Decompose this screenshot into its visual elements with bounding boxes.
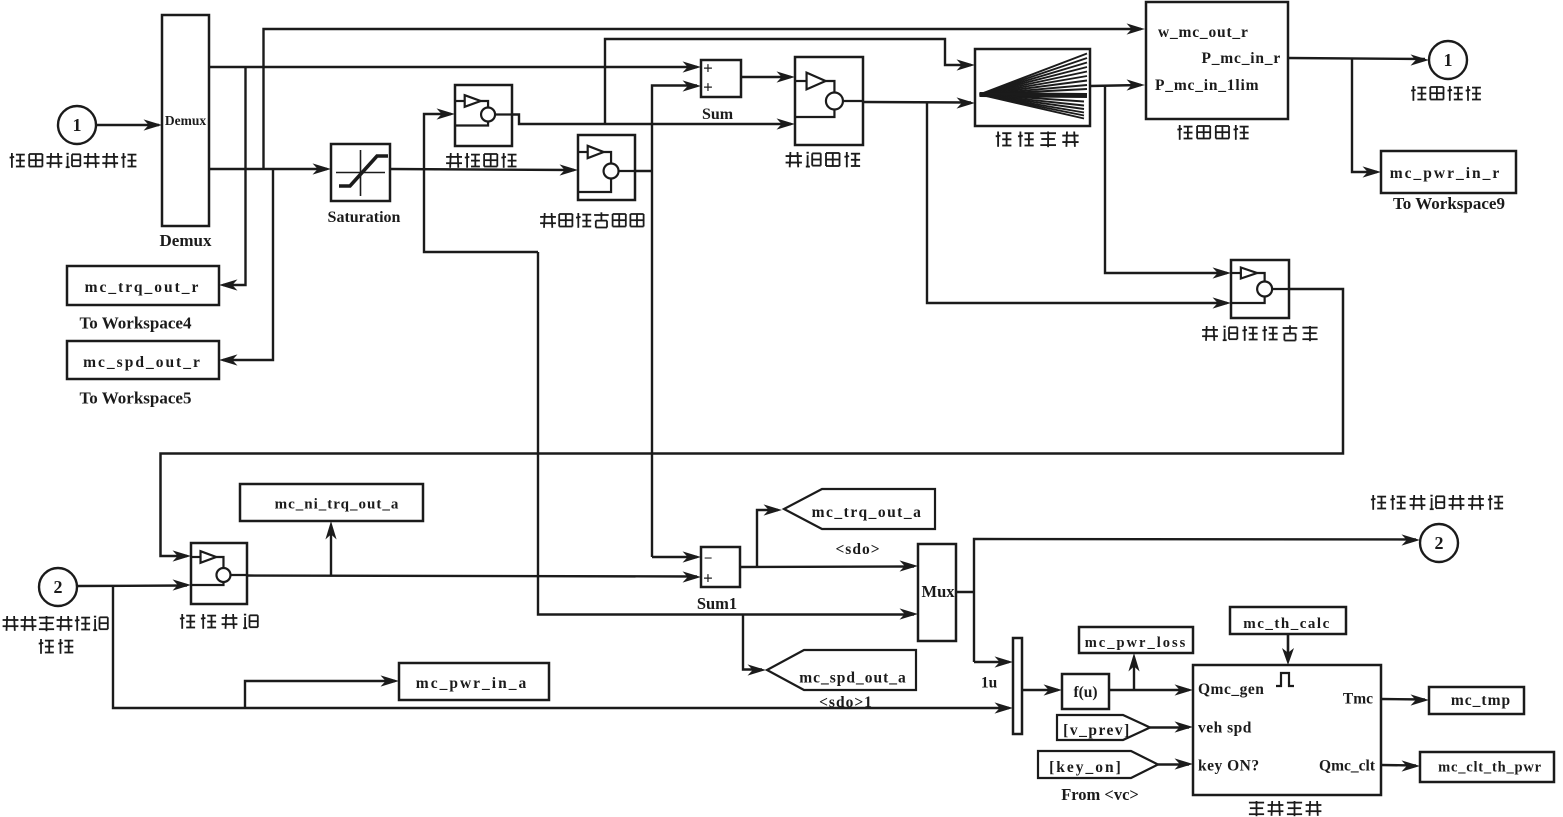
svg-text:+: +: [703, 59, 713, 78]
svg-text:1: 1: [73, 115, 82, 135]
svg-text:2: 2: [54, 577, 63, 597]
svg-text:w_mc_out_r: w_mc_out_r: [1158, 24, 1249, 41]
svg-text:+: +: [703, 569, 713, 588]
svg-text:P_mc_in_r: P_mc_in_r: [1201, 50, 1281, 67]
svg-text:Qmc_clt: Qmc_clt: [1319, 758, 1376, 775]
svg-text:mc_clt_th_pwr: mc_clt_th_pwr: [1438, 760, 1542, 776]
svg-text:mc_spd_out_a: mc_spd_out_a: [799, 670, 907, 687]
svg-text:mc_pwr_in_a: mc_pwr_in_a: [416, 675, 528, 692]
svg-text:f(u): f(u): [1073, 684, 1097, 701]
svg-text:mc_pwr_loss: mc_pwr_loss: [1085, 635, 1188, 651]
svg-text:mc_spd_out_r: mc_spd_out_r: [83, 354, 202, 371]
svg-text:mc_trq_out_r: mc_trq_out_r: [85, 279, 201, 296]
svg-text:+: +: [703, 78, 713, 97]
svg-text:Mux: Mux: [922, 582, 956, 601]
svg-text:<sdo>1: <sdo>1: [819, 694, 873, 711]
svg-text:Sum1: Sum1: [697, 594, 737, 613]
svg-text:From <vc>: From <vc>: [1061, 785, 1139, 804]
svg-text:Saturation: Saturation: [328, 209, 401, 226]
svg-text:mc_tmp: mc_tmp: [1451, 692, 1511, 709]
svg-text:veh spd: veh spd: [1198, 720, 1252, 737]
svg-text:Qmc_gen: Qmc_gen: [1198, 681, 1264, 698]
svg-text:Tmc: Tmc: [1343, 691, 1373, 708]
svg-text:[key_on]: [key_on]: [1049, 759, 1123, 776]
svg-text:To Workspace5: To Workspace5: [80, 389, 192, 408]
svg-text:1u: 1u: [981, 675, 998, 692]
svg-text:mc_trq_out_a: mc_trq_out_a: [812, 504, 923, 521]
svg-text:Demux: Demux: [160, 231, 212, 250]
svg-text:To Workspace9: To Workspace9: [1393, 194, 1505, 213]
svg-text:Demux: Demux: [165, 113, 206, 128]
svg-text:mc_th_calc: mc_th_calc: [1243, 616, 1330, 632]
svg-text:mc_pwr_in_r: mc_pwr_in_r: [1390, 165, 1502, 182]
svg-text:<sdo>: <sdo>: [835, 541, 880, 558]
svg-text:[v_prev]: [v_prev]: [1063, 722, 1131, 739]
svg-text:Sum: Sum: [702, 106, 734, 123]
svg-text:P_mc_in_1lim: P_mc_in_1lim: [1155, 77, 1259, 94]
svg-text:mc_ni_trq_out_a: mc_ni_trq_out_a: [275, 497, 400, 513]
svg-text:2: 2: [1435, 533, 1444, 553]
svg-text:−: −: [704, 551, 713, 567]
svg-text:key ON?: key ON?: [1198, 758, 1260, 775]
svg-text:To Workspace4: To Workspace4: [80, 314, 192, 333]
svg-text:1: 1: [1444, 50, 1453, 70]
